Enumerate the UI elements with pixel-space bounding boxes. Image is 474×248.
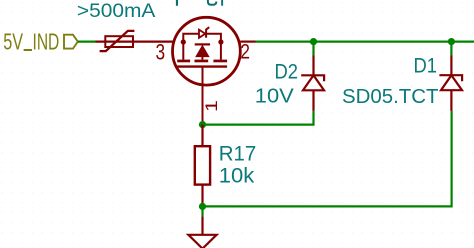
svg-text:>500mA: >500mA bbox=[77, 0, 155, 22]
Q1 channel dashes bbox=[177, 42, 227, 62]
svg-text:IND: IND bbox=[33, 29, 60, 55]
svg-text:1: 1 bbox=[202, 100, 221, 112]
Q1 internal right node dot bbox=[218, 39, 223, 44]
svg-text:10k: 10k bbox=[219, 164, 255, 188]
fuse F1 polyfuse bbox=[96, 31, 173, 51]
junction at D2 top bbox=[310, 38, 317, 45]
wire label to fuse bbox=[78, 40, 96, 42]
svg-text:D1: D1 bbox=[414, 54, 438, 77]
Q1 pin 2 lead bbox=[240, 40, 255, 42]
Q1 source-drain top loop with body diode bbox=[183, 27, 221, 42]
Q1 value Ch (cut off at top) bbox=[208, 0, 223, 6]
Q1 pin 1 (gate) lead bbox=[202, 67, 204, 123]
junction at D1 top bbox=[448, 38, 455, 45]
svg-text:10V: 10V bbox=[255, 86, 295, 108]
resistor R17 bbox=[195, 125, 210, 207]
svg-text:SD05.TCT: SD05.TCT bbox=[342, 86, 439, 108]
transistor Q1 (P-MOSFET) body circle bbox=[173, 17, 241, 85]
svg-text:5V: 5V bbox=[3, 29, 23, 55]
svg-text:2: 2 bbox=[240, 40, 250, 64]
Q1 substrate diode (filled) bbox=[195, 44, 210, 59]
Q1 reference (cut off at top) bbox=[176, 0, 178, 6]
wire D2 anode to gate node bbox=[203, 111, 314, 125]
zener diode D2 bbox=[301, 56, 324, 111]
diode D1 (TVS) bbox=[439, 56, 462, 111]
wire D2 top stub bbox=[312, 42, 314, 56]
wire Q1 drain to right edge bbox=[256, 40, 474, 42]
Q1 gate line bbox=[177, 65, 227, 67]
Q1 internal left node dot bbox=[181, 39, 186, 44]
wire ground node to D1 anode bbox=[203, 111, 452, 206]
junction at gate / R17 top bbox=[199, 121, 206, 128]
wire D1 top stub bbox=[450, 42, 452, 56]
svg-text:D2: D2 bbox=[275, 60, 299, 83]
svg-text:3: 3 bbox=[156, 39, 166, 64]
ground bbox=[188, 216, 216, 248]
svg-text:R17: R17 bbox=[219, 141, 256, 165]
hierarchical label 5V_IND bbox=[3, 29, 78, 55]
junction at R17 bottom / ground node bbox=[199, 203, 206, 210]
wire ground stub bbox=[201, 206, 203, 216]
